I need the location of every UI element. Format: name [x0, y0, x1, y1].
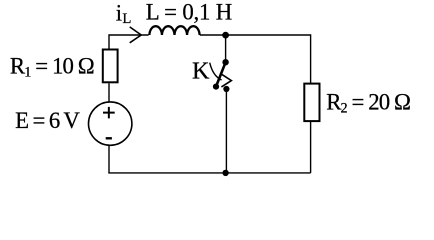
svg-text:L: L — [122, 11, 131, 27]
minus sign — [106, 137, 112, 139]
svg-text:R2 = 20 Ω: R2 = 20 Ω — [326, 89, 410, 116]
plus sign — [103, 107, 115, 119]
switch motion arrowhead — [221, 74, 231, 87]
switch motion arc — [210, 63, 222, 80]
svg-text:E = 6 V: E = 6 V — [15, 108, 80, 133]
switch blade end dot — [213, 84, 219, 90]
wire (left branch top + top wire to inductor) — [109, 35, 149, 49]
svg-text:K: K — [192, 58, 210, 85]
switch top contact dot — [222, 59, 228, 65]
inductor L — [149, 26, 199, 35]
switch K — [210, 59, 232, 92]
switch bottom contact dot — [223, 86, 229, 92]
wire (source E to bottom wire) — [108, 145, 110, 173]
current arrow iL — [130, 27, 142, 43]
svg-text:i: i — [116, 1, 122, 26]
wire (junction to switch top contact) — [225, 35, 227, 60]
wire (R1 to source E) — [108, 83, 110, 102]
resistor R1 — [103, 50, 118, 83]
svg-text:L = 0,1 H: L = 0,1 H — [146, 0, 232, 25]
resistor R2 — [304, 84, 319, 122]
node (bottom junction) — [222, 170, 228, 176]
wire (bottom) — [108, 172, 310, 174]
switch blade — [216, 62, 226, 86]
wire (inductor to top-right corner, right branch upper) — [200, 35, 311, 84]
svg-text:R1 = 10 Ω: R1 = 10 Ω — [10, 53, 94, 80]
wire (switch bottom contact to bottom wire) — [225, 91, 227, 173]
node (top junction) — [222, 32, 229, 39]
voltage source E — [89, 102, 132, 145]
wire (R2 to bottom-right corner) — [310, 121, 312, 173]
